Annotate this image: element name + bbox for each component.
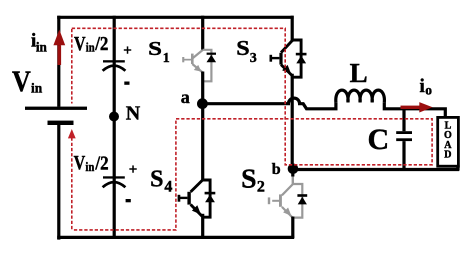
- svg-text:in: in: [85, 159, 95, 174]
- wire S2 emitter to bottom rail: [291, 217, 294, 239]
- output current arrow i_o: [401, 106, 420, 109]
- current loop dashed left segment lower: [71, 138, 73, 230]
- svg-text:V: V: [74, 33, 86, 55]
- svg-text:V: V: [74, 152, 86, 174]
- svg-text:i: i: [420, 76, 425, 97]
- node b: [288, 164, 299, 175]
- minus sign C2: [126, 199, 131, 202]
- svg-text:in: in: [86, 39, 96, 54]
- current loop dashed main path: [72, 28, 432, 230]
- capacitor C2 curved plate: [103, 182, 126, 187]
- wire battery column upper: [57, 16, 60, 107]
- svg-text:L: L: [350, 58, 368, 88]
- svg-text:S: S: [241, 163, 256, 193]
- svg-text:1: 1: [163, 51, 170, 66]
- capacitor C1 flat plate: [103, 60, 125, 62]
- wire node b to load bottom: [293, 168, 459, 171]
- svg-text:S: S: [150, 166, 163, 192]
- svg-text:D: D: [444, 150, 451, 161]
- capacitor C2 flat plate: [103, 176, 125, 178]
- wire battery column lower: [57, 125, 60, 240]
- LOAD box: [438, 117, 459, 166]
- capacitor C1 curved plate: [103, 66, 126, 71]
- svg-text:in: in: [31, 81, 42, 96]
- battery V_in short plate: [48, 121, 74, 125]
- inductor L humps: [336, 90, 385, 102]
- svg-text:in: in: [36, 40, 47, 55]
- capacitor C wire upper: [402, 107, 405, 131]
- transistor S4 (black IGBT): [178, 180, 210, 217]
- diode D2 (black): [297, 194, 307, 197]
- svg-text:b: b: [272, 161, 281, 178]
- transistor S3 (black IGBT): [270, 40, 302, 77]
- current loop dashed left segment upper: [71, 29, 73, 104]
- wire S1/S4 column upper: [201, 16, 204, 51]
- wire S3/S2 column upper: [291, 16, 294, 42]
- node N: [109, 112, 119, 122]
- svg-text:/2: /2: [95, 152, 109, 174]
- capacitor C bottom plate: [396, 138, 412, 141]
- svg-text:S: S: [148, 38, 162, 60]
- wire S3 emitter to node b: [291, 74, 294, 169]
- svg-text:C: C: [368, 123, 390, 156]
- input current arrow i_in: [53, 30, 65, 46]
- svg-text:3: 3: [250, 51, 257, 66]
- svg-text:V: V: [12, 65, 31, 98]
- svg-text:+: +: [123, 43, 132, 59]
- wire capacitor column: [113, 16, 116, 238]
- capacitor C wire lower: [402, 141, 405, 169]
- svg-text:2: 2: [257, 178, 265, 195]
- load bottom stub: [456, 165, 459, 171]
- wire S1/S4 column lower: [201, 214, 204, 238]
- svg-text:4: 4: [164, 178, 172, 195]
- svg-text:+: +: [129, 162, 138, 178]
- svg-text:/2: /2: [94, 33, 108, 55]
- diode D4 (black): [205, 192, 216, 195]
- dashed loop arrow below battery: [68, 129, 76, 138]
- wire S1/S4 column middle: [201, 72, 204, 181]
- wire node b to S2 (black stub): [291, 169, 294, 177]
- capacitor C top plate: [396, 131, 412, 134]
- diode D1 (black): [207, 53, 216, 55]
- transistor S1 (gray IGBT body): [182, 50, 211, 82]
- svg-text:S: S: [236, 36, 249, 60]
- svg-text:o: o: [425, 83, 432, 98]
- transistor S2 (gray IGBT body): [268, 177, 303, 218]
- svg-text:N: N: [126, 103, 141, 125]
- minus sign C1: [124, 82, 129, 85]
- wire top rail: [57, 16, 293, 19]
- node a: [197, 98, 208, 109]
- battery V_in long plate: [25, 107, 87, 110]
- diode D3 (black): [296, 53, 307, 56]
- wire node a to load: crossover bump, step, corner to load: [203, 98, 446, 117]
- svg-text:a: a: [181, 87, 190, 107]
- wire bottom rail: [57, 236, 294, 239]
